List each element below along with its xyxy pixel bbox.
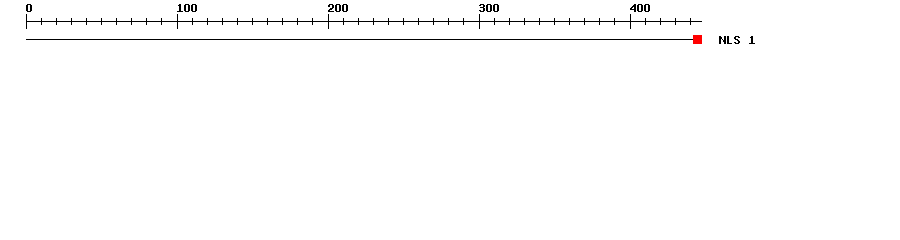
minor tick 280 (448, 18, 449, 25)
minor tick 260 (418, 18, 419, 25)
minor tick 290 (463, 18, 464, 25)
minor tick 410 (645, 18, 646, 25)
minor tick 440 (690, 18, 691, 25)
minor tick 220 (358, 18, 359, 25)
minor tick 360 (569, 18, 570, 25)
minor tick 270 (433, 18, 434, 25)
sequence line (26, 39, 693, 40)
major tick 300 (479, 14, 480, 29)
minor tick 30 (71, 18, 72, 25)
minor tick 420 (660, 18, 661, 25)
minor tick 250 (403, 18, 404, 25)
minor tick 120 (207, 18, 208, 25)
minor tick 230 (373, 18, 374, 25)
ruler axis line (26, 21, 702, 22)
minor tick 330 (524, 18, 525, 25)
minor tick 140 (237, 18, 238, 25)
minor tick 10 (41, 18, 42, 25)
minor tick 380 (599, 18, 600, 25)
minor tick 80 (146, 18, 147, 25)
minor tick 50 (101, 18, 102, 25)
minor tick 110 (192, 18, 193, 25)
minor tick 180 (297, 18, 298, 25)
minor tick 130 (222, 18, 223, 25)
minor tick 90 (161, 18, 162, 25)
minor tick 370 (584, 18, 585, 25)
minor tick 20 (56, 18, 57, 25)
ruler label 300 (479, 4, 499, 12)
minor tick 160 (267, 18, 268, 25)
minor tick 390 (614, 18, 615, 25)
ruler label 400 (630, 4, 650, 12)
NLS 1 match box (red) (693, 35, 702, 44)
minor tick 340 (539, 18, 540, 25)
minor tick 210 (343, 18, 344, 25)
minor tick 240 (388, 18, 389, 25)
minor tick 170 (282, 18, 283, 25)
ruler label 0 (26, 4, 32, 12)
minor tick 70 (131, 18, 132, 25)
major tick 400 (630, 14, 631, 29)
major tick 100 (177, 14, 178, 29)
ruler label 100 (177, 4, 197, 12)
minor tick 40 (86, 18, 87, 25)
major tick 200 (328, 14, 329, 29)
minor tick 150 (252, 18, 253, 25)
minor tick 320 (509, 18, 510, 25)
minor tick 310 (494, 18, 495, 25)
ruler label 200 (328, 4, 348, 12)
minor tick 430 (675, 18, 676, 25)
minor tick 190 (312, 18, 313, 25)
major tick 0 (26, 14, 27, 29)
minor tick 350 (554, 18, 555, 25)
label NLS 1 (719, 36, 755, 44)
minor tick 60 (116, 18, 117, 25)
